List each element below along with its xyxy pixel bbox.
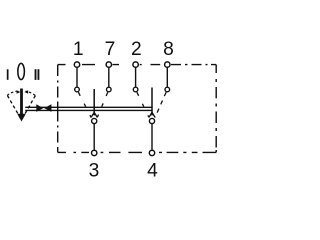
actuation arrow (thick, down) <box>17 89 26 122</box>
actuator bar (mechanical link, double line) <box>25 107 152 112</box>
enclosure left border (dash-dot) <box>57 65 59 153</box>
moving contact lever pole 3 <box>91 89 97 117</box>
svg-text:2: 2 <box>131 39 142 60</box>
enclosure bottom border (dash-dot) <box>58 151 217 153</box>
terminal 3 <box>92 150 97 155</box>
wire terminal 2 to contact <box>135 68 137 87</box>
svg-text:8: 8 <box>163 39 174 60</box>
rotation arc left (dashed) <box>7 91 16 95</box>
throw line contact2 to pivot4 (dashed) <box>137 92 149 117</box>
rotation arc right arrowhead <box>24 90 28 93</box>
terminal 4 <box>149 150 154 155</box>
wire terminal 1 to contact <box>76 68 78 87</box>
position label II <box>35 69 40 80</box>
fixed contact under terminal 8 <box>165 87 170 92</box>
position label 0 (ellipse glyph) <box>18 63 25 79</box>
svg-text:7: 7 <box>105 39 116 60</box>
fixed contact under terminal 2 <box>133 87 138 92</box>
rotation arc left arrowhead <box>17 90 21 93</box>
svg-text:1: 1 <box>73 39 84 60</box>
terminal 8 <box>165 62 170 67</box>
enclosure right border (dash-dot) <box>215 65 217 153</box>
throw line contact1 to pivot3 (dashed) <box>78 92 91 117</box>
svg-text:4: 4 <box>147 160 158 181</box>
wire terminal 8 to contact <box>166 68 168 87</box>
terminal 2 <box>133 62 138 67</box>
rotation arc right (dashed) <box>26 91 35 95</box>
wire pivot 4 to terminal 4 <box>151 124 153 150</box>
manual actuator (bowtie) <box>36 104 51 112</box>
svg-text:3: 3 <box>89 160 100 181</box>
terminal 1 <box>74 62 79 67</box>
wire terminal 7 to contact <box>108 68 110 87</box>
throw line contact7 to pivot3 (dashed) <box>97 92 107 117</box>
pivot contact pole 4 <box>149 118 154 123</box>
terminal 7 <box>106 62 111 67</box>
position wedge left side (dashed) <box>7 96 20 119</box>
position label I <box>7 69 9 80</box>
position wedge right side (dashed) <box>22 96 35 119</box>
fixed contact under terminal 7 <box>107 87 112 92</box>
enclosure top border (dash-dot) <box>58 64 217 66</box>
throw line contact8 to pivot4 (dashed) <box>155 92 166 117</box>
wire pivot 3 to terminal 3 <box>93 124 95 150</box>
fixed contact under terminal 1 <box>75 87 80 92</box>
moving contact lever pole 4 <box>149 88 155 118</box>
pivot contact pole 3 <box>92 118 97 123</box>
